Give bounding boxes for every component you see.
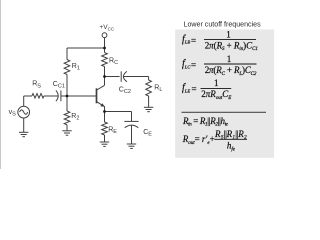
svg-text:vS: vS bbox=[9, 109, 17, 118]
svg-text:Lower cutoff frequencies: Lower cutoff frequencies bbox=[184, 20, 262, 28]
svg-text:1: 1 bbox=[227, 54, 232, 64]
svg-text:1: 1 bbox=[214, 78, 219, 88]
svg-text:1: 1 bbox=[226, 30, 231, 40]
svg-text:=: = bbox=[191, 60, 196, 70]
svg-text:RE: RE bbox=[108, 126, 117, 135]
svg-text:RL: RL bbox=[154, 85, 162, 94]
svg-text:R1: R1 bbox=[72, 63, 80, 72]
svg-text:CC1: CC1 bbox=[53, 81, 65, 90]
svg-text:+VCC: +VCC bbox=[99, 24, 114, 32]
svg-text:RC: RC bbox=[109, 57, 118, 66]
svg-text:CC2: CC2 bbox=[119, 86, 131, 95]
svg-text:=: = bbox=[192, 84, 197, 94]
svg-text:CE: CE bbox=[143, 129, 152, 138]
svg-text:R2: R2 bbox=[71, 113, 79, 122]
svg-text:RS: RS bbox=[32, 81, 41, 90]
svg-text:=: = bbox=[191, 35, 196, 45]
